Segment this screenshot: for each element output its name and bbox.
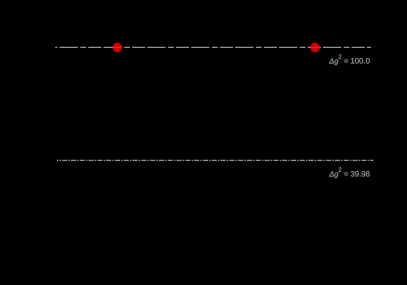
dash-dot reference line (bottom), value 39.98 <box>57 159 374 161</box>
red data point 1 <box>113 43 123 53</box>
label: delta g squared = 100.0 <box>329 54 370 65</box>
dashed reference line (top), value 100.0 <box>55 46 371 48</box>
red data point 2 <box>310 43 320 53</box>
label: delta g squared = 39.98 <box>329 167 370 178</box>
